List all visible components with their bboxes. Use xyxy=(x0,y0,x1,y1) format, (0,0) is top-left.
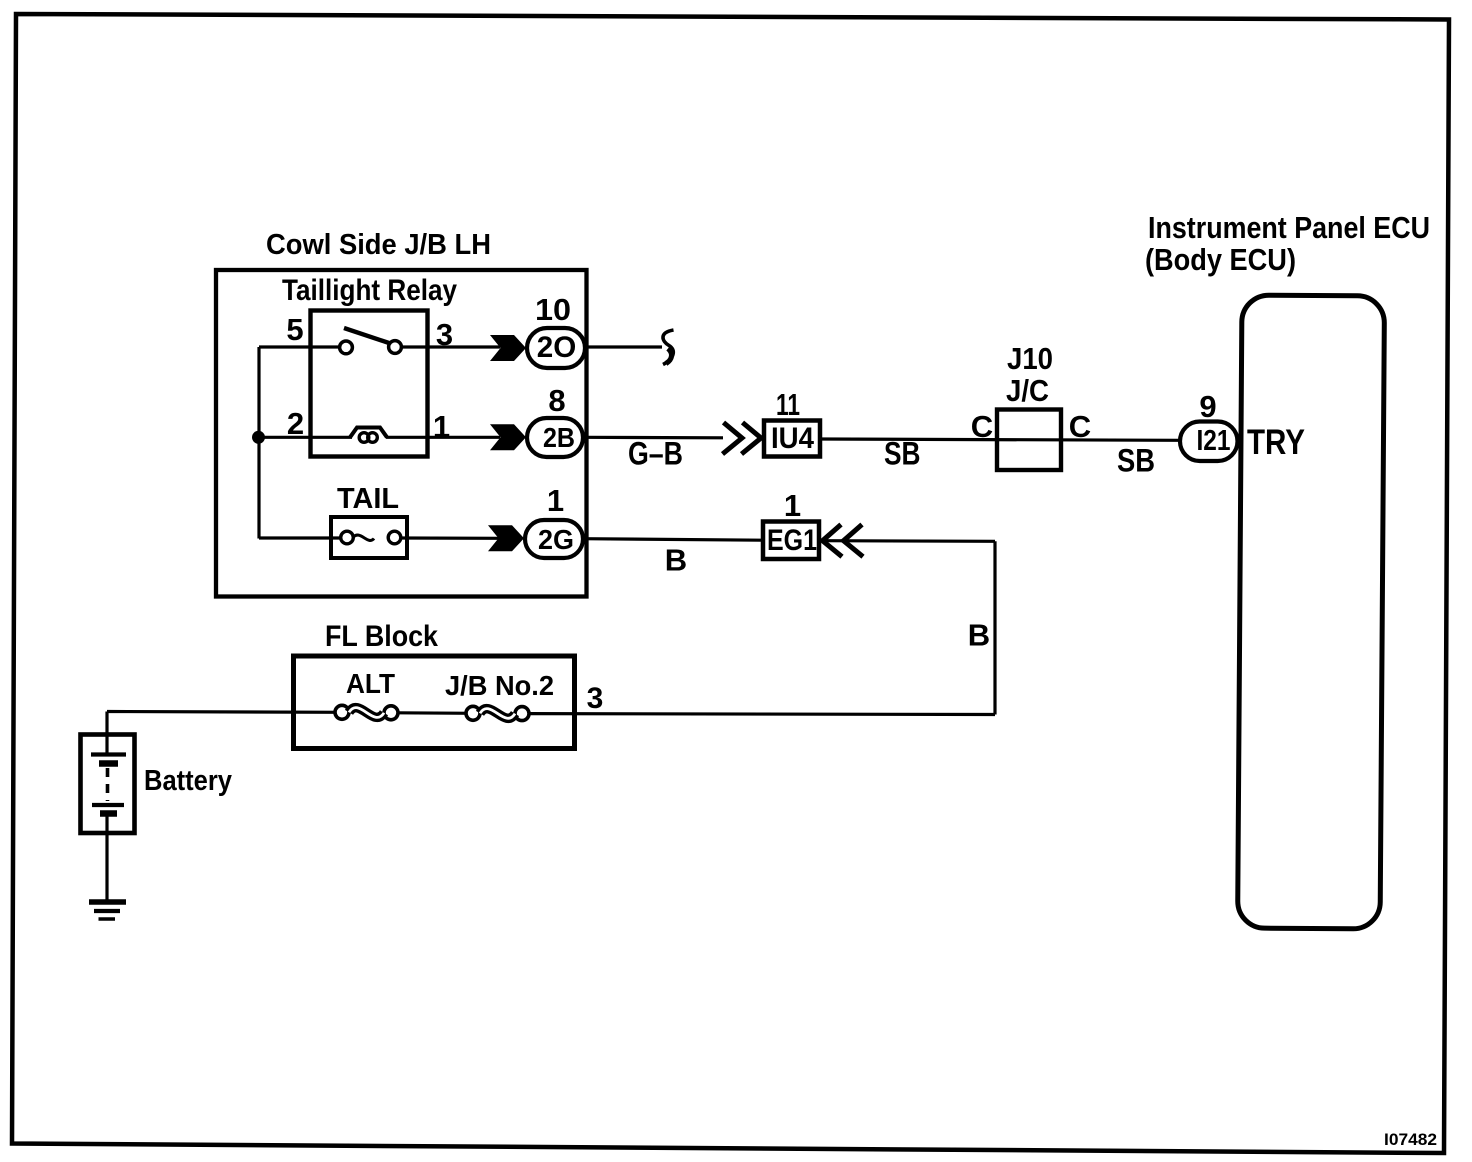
fusible link J/B No.2 symbol xyxy=(466,706,480,720)
wire battery drop xyxy=(105,712,108,735)
wire vertical B drop xyxy=(993,541,996,714)
connector oval 2B xyxy=(527,418,583,457)
connector arrow (row 3) xyxy=(488,525,524,551)
svg-text:Battery: Battery xyxy=(144,765,232,797)
battery internals xyxy=(105,734,108,753)
svg-text:B: B xyxy=(665,543,687,578)
svg-text:C: C xyxy=(1069,409,1091,444)
connector oval I21 xyxy=(1180,422,1238,462)
wire: pin2 to coil xyxy=(259,436,352,439)
junction dot node xyxy=(252,431,265,444)
connector box EG1 xyxy=(763,522,819,560)
wire battery to ground xyxy=(105,833,108,900)
fusible link block FL box xyxy=(294,656,575,749)
svg-text:2G: 2G xyxy=(538,524,574,555)
wire between links xyxy=(398,711,473,715)
switch blade xyxy=(344,328,389,343)
wire battery to FL block xyxy=(107,710,342,714)
svg-text:1: 1 xyxy=(784,488,801,523)
wire chevrons to corner xyxy=(823,539,995,543)
splice chevron 1 xyxy=(723,423,743,455)
svg-text:2O: 2O xyxy=(537,331,577,364)
splice chevron 4 (left-pointing) xyxy=(844,525,864,557)
splice chevron 3 (left-pointing) xyxy=(823,525,843,557)
wire: coil to arrow (row 2) xyxy=(386,436,500,439)
fusible link ALT symbol xyxy=(335,705,349,719)
connector oval 2G xyxy=(525,520,583,558)
svg-text:SB: SB xyxy=(1117,443,1155,479)
battery box xyxy=(81,735,135,834)
svg-text:TAIL: TAIL xyxy=(337,483,399,515)
svg-text:8: 8 xyxy=(548,383,565,418)
ground symbol xyxy=(89,899,126,905)
svg-text:IU4: IU4 xyxy=(771,422,814,455)
switch contact right xyxy=(389,341,402,354)
fuse TAIL symbol xyxy=(341,531,354,544)
svg-text:Taillight Relay: Taillight Relay xyxy=(282,274,457,307)
svg-text:G–B: G–B xyxy=(628,436,683,472)
svg-text:5: 5 xyxy=(286,312,303,347)
connector oval 2O xyxy=(527,328,585,368)
svg-text:Cowl Side J/B LH: Cowl Side J/B LH xyxy=(266,229,491,261)
svg-text:(Body ECU): (Body ECU) xyxy=(1145,242,1296,277)
wire 2G to EG1 xyxy=(583,539,761,541)
svg-text:1: 1 xyxy=(547,483,564,518)
wire 2B to chevrons xyxy=(583,436,723,440)
wire: fuse to arrow (row 3) xyxy=(401,536,499,539)
svg-text:ALT: ALT xyxy=(346,668,395,699)
wire IU4 to J/C to I21 xyxy=(820,439,1179,440)
svg-text:Instrument Panel ECU: Instrument Panel ECU xyxy=(1148,210,1430,245)
svg-text:SB: SB xyxy=(884,436,921,472)
connector box IU4 xyxy=(764,421,820,457)
svg-text:I07482: I07482 xyxy=(1384,1130,1437,1149)
switch contact left xyxy=(340,341,353,354)
splice chevron 2 xyxy=(742,423,762,455)
wire: left vertical bus xyxy=(257,347,260,539)
svg-text:C: C xyxy=(971,409,993,444)
svg-text:3: 3 xyxy=(587,682,604,715)
relay box (Taillight Relay) xyxy=(311,311,428,457)
svg-text:J10: J10 xyxy=(1007,341,1053,376)
svg-text:TRY: TRY xyxy=(1247,423,1305,462)
wire FL block to corner xyxy=(529,712,995,716)
fuse TAIL box xyxy=(331,517,407,558)
svg-text:11: 11 xyxy=(776,387,800,422)
connector arrow (row 2) xyxy=(490,424,526,450)
junction block Cowl Side J/B LH box xyxy=(216,270,587,597)
svg-text:J/C: J/C xyxy=(1006,373,1049,408)
svg-text:EG1: EG1 xyxy=(767,524,817,557)
svg-text:2B: 2B xyxy=(543,422,575,453)
wire: bus down to TAIL fuse xyxy=(259,536,342,539)
connector arrow (row 1) xyxy=(490,335,526,361)
svg-text:B: B xyxy=(968,618,990,653)
relay coil xyxy=(350,428,387,438)
junction connector J10 J/C box xyxy=(997,410,1061,471)
svg-text:9: 9 xyxy=(1199,389,1216,424)
wire after 2O xyxy=(587,345,662,348)
svg-text:I21: I21 xyxy=(1197,425,1231,457)
wire: switch to arrow (row 1) xyxy=(402,345,501,348)
ECU body rounded box xyxy=(1238,295,1385,929)
wire: pin5 to switch contact xyxy=(259,345,340,348)
svg-text:10: 10 xyxy=(535,292,571,327)
svg-text:FL Block: FL Block xyxy=(325,620,438,653)
svg-text:J/B No.2: J/B No.2 xyxy=(445,670,554,701)
wire break squiggle xyxy=(663,330,674,365)
